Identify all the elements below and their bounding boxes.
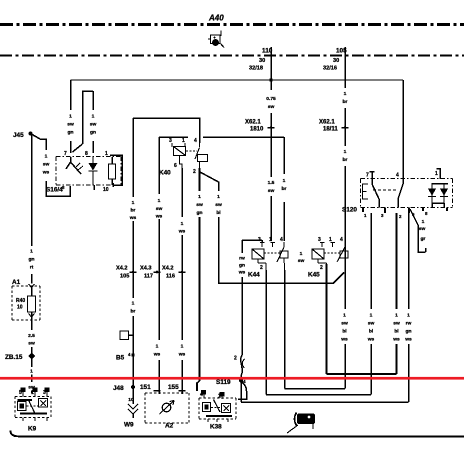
svg-text:2.5: 2.5 <box>28 333 35 339</box>
svg-text:rw: rw <box>239 256 245 262</box>
wire J45 to switch <box>31 134 71 197</box>
svg-text:1: 1 <box>182 138 185 144</box>
svg-text:1: 1 <box>181 344 184 350</box>
svg-text:K44: K44 <box>248 272 260 279</box>
svg-text:1: 1 <box>105 151 108 157</box>
svg-text:2: 2 <box>320 265 323 271</box>
svg-text:gn: gn <box>406 330 412 335</box>
relay block K38 <box>199 391 236 423</box>
svg-text:rt: rt <box>30 265 34 271</box>
svg-text:sw: sw <box>67 123 74 128</box>
wire K44 out right down <box>284 270 286 389</box>
junction dot at rail <box>269 78 273 82</box>
svg-text:br: br <box>343 157 348 163</box>
switch unit S120 box <box>361 179 453 208</box>
stub pin 10 below box <box>93 185 95 190</box>
horn symbol <box>162 403 171 412</box>
svg-text:ws: ws <box>238 271 246 276</box>
svg-text:1: 1 <box>217 194 220 200</box>
svg-text:X62.1: X62.1 <box>319 120 335 126</box>
svg-text:1: 1 <box>181 221 184 227</box>
svg-text:ws: ws <box>42 171 50 176</box>
svg-text:5: 5 <box>19 390 22 396</box>
loop1 wire <box>285 344 346 389</box>
terminal ZB.15 diamond <box>28 353 35 360</box>
svg-text:32/16: 32/16 <box>323 66 337 72</box>
svg-text:1: 1 <box>435 171 438 177</box>
thick loop wire <box>327 213 397 374</box>
svg-text:4: 4 <box>396 173 399 179</box>
svg-text:gn: gn <box>68 131 74 136</box>
svg-text:ws: ws <box>178 230 186 235</box>
wire K40 pin2 branch diagonal <box>200 172 344 283</box>
node S119 <box>239 379 243 383</box>
svg-text:1: 1 <box>198 194 201 200</box>
svg-text:S16/4: S16/4 <box>46 187 63 194</box>
svg-text:gn: gn <box>197 211 203 216</box>
wire n-loop at switch <box>73 91 94 153</box>
svg-text:1: 1 <box>395 313 398 319</box>
svg-text:1: 1 <box>269 237 272 243</box>
S120 pin 1 stub <box>437 168 441 179</box>
connector arrow bottom A1 <box>29 314 35 318</box>
svg-text:2: 2 <box>260 265 263 271</box>
relay K40 <box>172 143 208 169</box>
svg-text:1: 1 <box>283 178 286 184</box>
svg-text:gn: gn <box>29 258 35 263</box>
svg-text:gn: gn <box>239 264 245 269</box>
svg-text:1: 1 <box>300 251 303 257</box>
S120 bottom pin ticks <box>363 208 447 214</box>
wire terminal 30 drop from pin 110 <box>270 56 272 241</box>
svg-text:J48: J48 <box>113 385 124 392</box>
svg-text:110: 110 <box>262 48 273 55</box>
relay block K9 <box>15 388 51 421</box>
svg-text:3: 3 <box>318 237 321 243</box>
svg-text:R40: R40 <box>16 298 25 304</box>
svg-text:K9: K9 <box>28 426 37 433</box>
svg-text:sw: sw <box>196 203 203 208</box>
svg-text:3: 3 <box>258 237 261 243</box>
svg-text:6: 6 <box>174 163 177 169</box>
svg-text:105: 105 <box>120 274 129 280</box>
svg-text:sw: sw <box>28 386 35 391</box>
connector arrow top A1 <box>29 284 35 288</box>
svg-text:sw: sw <box>43 163 50 168</box>
wire x159 down to 151 <box>158 137 160 394</box>
S120 contact arm 2 <box>398 179 403 208</box>
svg-text:S120: S120 <box>342 207 357 214</box>
svg-text:br: br <box>131 208 136 214</box>
ground sleeve block A1 <box>12 286 40 320</box>
svg-text:30: 30 <box>333 58 339 64</box>
svg-text:sw: sw <box>341 322 348 327</box>
loop3 wire <box>241 213 409 402</box>
svg-text:sw: sw <box>368 322 375 327</box>
svg-text:A2: A2 <box>165 423 174 430</box>
connector X62.1 tick left <box>268 127 275 129</box>
svg-text:0.75: 0.75 <box>266 96 276 102</box>
svg-text:151: 151 <box>140 384 151 391</box>
connector D box at B5 <box>120 331 129 340</box>
svg-text:10: 10 <box>103 187 109 193</box>
wire rail to S16/4 pin 7 <box>70 80 72 153</box>
svg-text:1: 1 <box>30 249 33 255</box>
wire K44 pin3 to coil feed <box>242 240 262 243</box>
svg-text:1: 1 <box>45 154 48 160</box>
svg-text:ws: ws <box>392 338 400 343</box>
pointer arrow 438 <box>295 413 297 426</box>
svg-text:K45: K45 <box>308 272 320 279</box>
svg-text:ws: ws <box>404 338 412 343</box>
svg-text:30: 30 <box>259 58 265 64</box>
svg-text:1: 1 <box>343 313 346 319</box>
relay K40 feed loop <box>133 118 200 143</box>
svg-text:7: 7 <box>64 151 67 157</box>
svg-text:1: 1 <box>156 344 159 350</box>
svg-text:W9: W9 <box>124 422 134 429</box>
svg-text:2: 2 <box>234 356 237 362</box>
resistor in S16/4 <box>111 157 113 185</box>
svg-text:sw: sw <box>393 322 400 327</box>
svg-text:1: 1 <box>218 394 221 400</box>
svg-text:sw: sw <box>215 203 222 208</box>
svg-text:8: 8 <box>85 151 88 157</box>
svg-text:1: 1 <box>344 149 347 155</box>
wire S119 to K38 <box>238 381 247 399</box>
S120 diode tie <box>432 184 448 208</box>
svg-text:116: 116 <box>166 274 175 280</box>
wire K44 out left down <box>265 270 267 395</box>
svg-text:ws: ws <box>153 353 161 358</box>
svg-text:A40: A40 <box>208 14 224 23</box>
cut line red <box>0 377 464 380</box>
svg-text:K38: K38 <box>210 424 222 431</box>
svg-text:X62.1: X62.1 <box>245 120 261 126</box>
svg-text:sw: sw <box>156 207 163 212</box>
bottom frame border <box>11 431 464 437</box>
pin 110 stub <box>270 47 272 56</box>
svg-text:ws: ws <box>155 215 163 220</box>
svg-text:1810: 1810 <box>250 127 264 133</box>
S120 diode 1 <box>428 183 436 203</box>
svg-text:1: 1 <box>422 219 425 225</box>
svg-text:sw: sw <box>268 105 275 110</box>
svg-text:X4.3: X4.3 <box>140 266 152 272</box>
S120 hook wire to sleeve <box>410 209 426 252</box>
svg-text:X4.2: X4.2 <box>162 266 174 272</box>
svg-text:1: 1 <box>370 313 373 319</box>
wire J48 to W9 <box>132 387 134 404</box>
svg-text:sw: sw <box>419 227 426 232</box>
svg-text:ws: ws <box>340 338 348 343</box>
svg-text:1.5: 1.5 <box>268 180 275 186</box>
svg-text:4: 4 <box>200 392 203 398</box>
wire A1 down to ZB.15 <box>31 320 33 393</box>
wire resistor bypass hook <box>110 155 122 187</box>
wire J45 down to A1 <box>31 134 33 284</box>
svg-text:1: 1 <box>329 237 332 243</box>
S120 diode 2 <box>440 183 448 203</box>
svg-text:1: 1 <box>92 114 95 120</box>
svg-text:bl: bl <box>216 210 221 216</box>
svg-text:br: br <box>343 99 348 105</box>
svg-text:105: 105 <box>336 48 347 55</box>
svg-text:sw: sw <box>268 189 275 194</box>
svg-text:1: 1 <box>30 369 33 375</box>
svg-text:1: 1 <box>344 91 347 97</box>
svg-text:ws: ws <box>367 338 375 343</box>
svg-text:1: 1 <box>158 198 161 204</box>
wire K45 out thick down <box>325 264 327 374</box>
wire x133 down <box>132 118 134 387</box>
connector 2 arcs above S119 <box>242 359 244 368</box>
wire K40 pin2 thick down <box>198 168 200 381</box>
svg-text:gn: gn <box>90 131 96 136</box>
svg-text:S119: S119 <box>216 379 231 386</box>
horn unit A2 box <box>145 393 189 423</box>
svg-text:10: 10 <box>17 305 23 311</box>
svg-text:sw: sw <box>298 259 305 264</box>
svg-text:bl: bl <box>369 329 374 335</box>
svg-text:bl: bl <box>394 329 399 335</box>
connector X62.1 tick right <box>342 127 349 129</box>
loop2 wire <box>266 213 371 395</box>
switch arm S16/4 <box>66 157 81 174</box>
ground connector W9 chevrons <box>128 404 138 414</box>
svg-text:4: 4 <box>340 237 343 243</box>
connector ticks 151 155 <box>154 390 186 392</box>
svg-text:ZB.15: ZB.15 <box>5 354 23 361</box>
svg-text:4: 4 <box>243 379 246 384</box>
svg-text:sw: sw <box>28 342 35 347</box>
svg-text:3: 3 <box>169 138 172 144</box>
svg-text:ws: ws <box>129 216 137 221</box>
svg-text:4: 4 <box>194 138 197 144</box>
svg-text:117: 117 <box>144 274 153 280</box>
svg-text:1: 1 <box>407 313 410 319</box>
rail mid right to K44 <box>203 137 284 241</box>
svg-text:A1: A1 <box>12 279 21 286</box>
svg-text:1: 1 <box>132 301 135 307</box>
relay K44 <box>252 242 288 270</box>
node J48 <box>131 385 135 389</box>
svg-text:3: 3 <box>43 390 46 396</box>
S120 E bracket <box>363 184 369 199</box>
S120 pin 4 entry <box>402 172 404 179</box>
S120 linkage dashes <box>373 189 398 191</box>
svg-text:10: 10 <box>128 397 134 403</box>
wire br drop from pin 105 <box>344 56 346 389</box>
svg-text:B5: B5 <box>116 355 125 362</box>
svg-text:gr: gr <box>421 236 426 242</box>
pin 105 stub <box>344 47 346 56</box>
node J45 <box>29 132 33 136</box>
node B5 <box>131 353 134 356</box>
wire thick into K38 <box>197 381 200 391</box>
icon lamp symbol under A40 <box>208 31 224 48</box>
svg-text:4: 4 <box>280 237 283 243</box>
top feed rail <box>71 79 404 81</box>
svg-text:sw: sw <box>90 123 97 128</box>
svg-text:1: 1 <box>69 114 72 120</box>
svg-text:18/11: 18/11 <box>323 127 338 133</box>
svg-text:2: 2 <box>193 169 196 175</box>
rail mid left <box>159 136 188 138</box>
svg-text:bl: bl <box>342 329 347 335</box>
svg-text:1: 1 <box>132 200 135 206</box>
S120 pin 7 stub <box>370 171 375 179</box>
connector X4.2 ticks <box>130 271 137 273</box>
svg-text:K40: K40 <box>159 170 171 177</box>
svg-text:1: 1 <box>31 390 34 396</box>
wiring harness dash-dot line 2 <box>0 55 464 57</box>
switch S16/4 box <box>56 157 121 186</box>
wire rail down to S120 pin 4 <box>402 80 404 172</box>
svg-text:7: 7 <box>366 173 369 179</box>
svg-text:32/18: 32/18 <box>249 66 263 72</box>
relay K45 <box>312 242 348 270</box>
svg-text:ws: ws <box>178 353 186 358</box>
S120 contact arm 1 <box>372 179 379 208</box>
diode in S16/4 <box>89 157 98 185</box>
svg-text:br: br <box>131 309 136 315</box>
svg-text:rw: rw <box>406 321 412 327</box>
svg-text:J45: J45 <box>13 132 24 139</box>
wire K40 coil down to 155 <box>181 168 183 394</box>
svg-text:155: 155 <box>168 384 179 391</box>
resistor R40 <box>28 296 36 312</box>
module boundary A40 dash-dot line top <box>0 23 464 26</box>
wire rw/gn/ws down through S119 <box>241 240 243 402</box>
svg-text:X4.2: X4.2 <box>116 266 128 272</box>
svg-text:br: br <box>282 186 287 192</box>
